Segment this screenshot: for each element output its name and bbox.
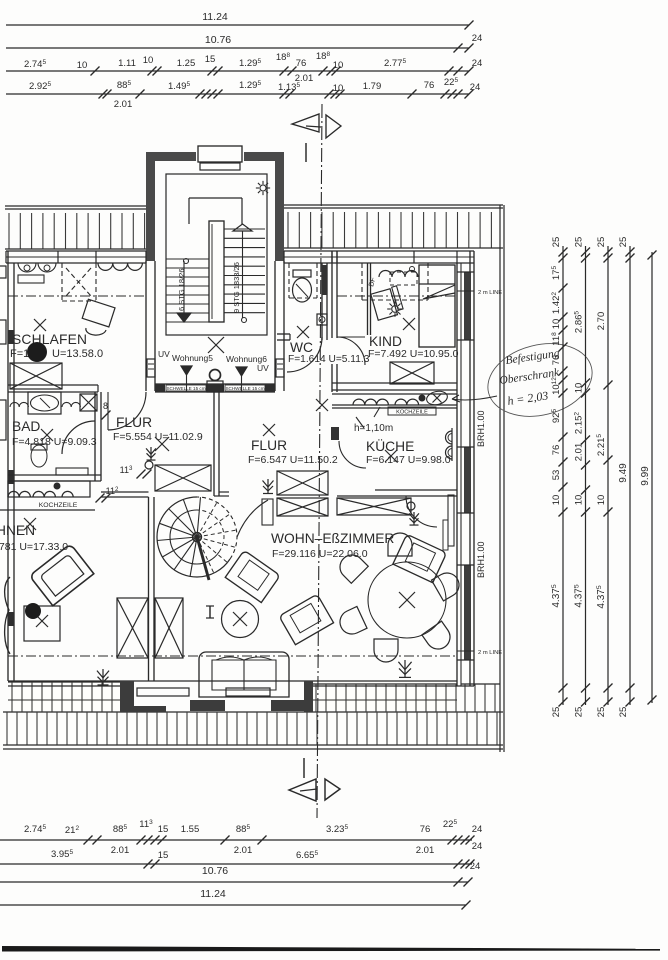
- note arrow to circled X: [452, 396, 497, 400]
- svg-text:U=13.58.0: U=13.58.0: [52, 348, 103, 360]
- toilet BAD: [31, 445, 47, 467]
- stair treads left flight: [166, 258, 209, 260]
- svg-text:25: 25: [551, 707, 562, 718]
- svg-text:76: 76: [296, 58, 307, 69]
- svg-text:25: 25: [574, 707, 585, 718]
- spiral stair bold tread line: [197, 537, 209, 580]
- wardrobe FLUR1 (crossed): [155, 465, 211, 491]
- door KUECHE-WOHN arc: [406, 496, 437, 527]
- svg-text:KOCHZEILE: KOCHZEILE: [396, 410, 428, 416]
- stairwell top entrance recess: [196, 150, 244, 164]
- svg-text:UV: UV: [158, 349, 170, 359]
- svg-text:10: 10: [333, 60, 344, 71]
- UV box left stair wall: [147, 359, 155, 377]
- door SCHLAFEN to FLUR arc: [108, 392, 146, 430]
- svg-text:1.55: 1.55: [181, 824, 200, 835]
- wall WC / KIND vertical: [331, 251, 333, 392]
- svg-text:9.49: 9.49: [618, 463, 629, 483]
- wall KUECHE bottom: [375, 489, 457, 491]
- closet scallops KIND top: [379, 271, 418, 278]
- svg-text:KOCHZEILE: KOCHZEILE: [39, 502, 78, 509]
- terrace plant left: [102, 669, 104, 685]
- threshold label SCHWELLE 15 cm left: [166, 385, 206, 391]
- svg-text:BRH1.00: BRH1.00: [476, 410, 486, 447]
- svg-text:1.11: 1.11: [118, 58, 136, 69]
- stair arrow up right flight: [233, 224, 252, 231]
- svg-text:BAD: BAD: [12, 419, 40, 434]
- label KOCHZEILE left: [0, 509, 95, 511]
- shelf BAD: [56, 468, 88, 475]
- handwritten note ellipse: [480, 333, 600, 427]
- right dim ticks: [559, 248, 568, 257]
- apartment top wall right section: [284, 250, 474, 252]
- kitchen counter fixing dot: [419, 395, 426, 402]
- svg-text:53: 53: [551, 470, 562, 481]
- balcony hatch band top-left: [5, 205, 146, 207]
- svg-text:24: 24: [470, 861, 481, 872]
- svg-text:F=29.116 U=22.06.0: F=29.116 U=22.06.0: [272, 548, 368, 560]
- svg-text:2.01: 2.01: [111, 845, 130, 856]
- svg-text:F=6.547 U=11.50.2: F=6.547 U=11.50.2: [248, 454, 338, 466]
- svg-text:10: 10: [574, 495, 585, 506]
- svg-text:10.76: 10.76: [202, 865, 228, 877]
- dimension chain line 4 (top): [6, 93, 469, 95]
- svg-text:10: 10: [333, 83, 344, 94]
- round side table with cross: [222, 601, 259, 638]
- svg-text:2.01: 2.01: [574, 443, 585, 462]
- apartment right outer wall: [456, 263, 458, 686]
- svg-text:BRH1.00: BRH1.00: [476, 541, 486, 578]
- radiator scallops flanking tub: [10, 402, 28, 407]
- section line vertical (dash-dot): [317, 104, 322, 818]
- vertical dimension line E: [651, 252, 653, 703]
- dining chairs: [388, 533, 412, 556]
- vertical dimension line B: [585, 246, 587, 705]
- spiral stair spokes: [190, 537, 197, 576]
- lamp symbol stairwell: [260, 185, 266, 191]
- svg-text:24: 24: [472, 824, 483, 835]
- svg-text:8: 8: [103, 401, 108, 411]
- svg-text:25: 25: [618, 707, 629, 718]
- sideboard FLUR2 crossed lower: [277, 498, 328, 516]
- svg-text:2.01: 2.01: [416, 845, 435, 856]
- balcony hatch band bottom: [3, 711, 503, 713]
- 2m line right KIND: [337, 295, 457, 297]
- svg-text:24: 24: [472, 841, 483, 852]
- bathtub BAD: [28, 392, 61, 414]
- svg-text:h=1,10m: h=1,10m: [354, 423, 393, 434]
- stair treads right flight: [224, 228, 265, 230]
- svg-text:10: 10: [574, 383, 585, 394]
- cross mark WC: [297, 326, 309, 338]
- svg-text:11.24: 11.24: [202, 11, 228, 23]
- door pier KUECHE dark: [331, 427, 339, 440]
- svg-text:F=5.554 U=11.02.9: F=5.554 U=11.02.9: [113, 431, 203, 443]
- svg-text:1.79: 1.79: [363, 81, 382, 92]
- terrace door sill bars (dark): [190, 700, 225, 711]
- door KIND arc: [337, 337, 365, 365]
- svg-text:F=6.147 U=9.98.0: F=6.147 U=9.98.0: [366, 454, 451, 466]
- wall FLUR1 / FLUR2 vertical: [213, 392, 215, 496]
- dormer cheek wall KIND: [367, 263, 369, 335]
- sink WC: [317, 314, 327, 325]
- scan edge bar bottom: [2, 946, 660, 952]
- svg-text:10: 10: [596, 495, 607, 506]
- dormer dashed outline SCHLAFEN: [61, 263, 63, 301]
- svg-text:9 STG 1833/26: 9 STG 1833/26: [232, 262, 241, 313]
- svg-text:15: 15: [205, 54, 216, 65]
- newel circle at stair hall: [210, 370, 221, 381]
- svg-text:WC: WC: [290, 340, 313, 355]
- balcony hatch band top-right: [284, 204, 503, 206]
- terrace door jamb left (dark L): [120, 681, 134, 712]
- svg-text:11.24: 11.24: [200, 888, 226, 900]
- door WC arc: [287, 337, 322, 372]
- spiral stair outer circle: [157, 497, 230, 577]
- bottom dimension chain line A: [0, 839, 472, 841]
- terrace grid right segment: [312, 683, 457, 685]
- wall WC right: [321, 263, 323, 340]
- svg-text:76: 76: [551, 445, 562, 456]
- wall BAD / FLUR vertical: [94, 392, 96, 481]
- stairwell bottom wall with thresholds: [155, 383, 275, 385]
- svg-text:FLUR: FLUR: [116, 415, 152, 430]
- toilet WC: [293, 270, 311, 277]
- stair well eye rect: [189, 197, 242, 199]
- dormer dashed KIND: [361, 263, 363, 300]
- armchair WOHN 2: [279, 594, 334, 645]
- svg-text:25: 25: [596, 237, 607, 248]
- wall shelf right: [448, 495, 454, 546]
- washbasins top wall SCHLAFEN: [18, 263, 36, 272]
- svg-text:.781 U=17.33.0: .781 U=17.33.0: [0, 541, 68, 553]
- dimension chain line 3 (top): [6, 70, 469, 72]
- apartment bottom wall: [8, 680, 457, 682]
- dimension line 10.76 (top): [6, 47, 469, 49]
- sideboard WOHN crossed: [337, 498, 411, 515]
- svg-text:2.01: 2.01: [234, 845, 253, 856]
- svg-text:KÜCHE: KÜCHE: [366, 437, 414, 454]
- terrace grid left segment: [8, 681, 120, 683]
- svg-text:76: 76: [420, 824, 431, 835]
- dining table oval: [368, 562, 446, 638]
- armchair WOHN 3: [393, 534, 447, 583]
- section marker top (mirrored triangles): [292, 114, 319, 132]
- wall SCHLAFEN / BAD: [8, 384, 98, 386]
- svg-text:2.01: 2.01: [114, 99, 133, 110]
- section marker bottom (mirrored triangles): [289, 779, 316, 801]
- right wall connectors: [457, 262, 474, 264]
- svg-text:F=4.818 U=9.09.3: F=4.818 U=9.09.3: [12, 436, 97, 448]
- bottom dimension line 11.24: [0, 904, 466, 906]
- wall WC bottom stub: [277, 333, 290, 335]
- cross mark KUECHE: [316, 399, 328, 411]
- shelves crossed at partition: [117, 598, 148, 658]
- stairwell inner boundary: [166, 174, 267, 335]
- stair central stringer: [209, 221, 224, 322]
- armchair WOHNEN: [29, 544, 93, 606]
- right wall window glazing dark segments: [464, 272, 471, 340]
- terrace grid beyond right wall: [461, 683, 500, 685]
- door KUECHE arc: [339, 441, 366, 468]
- dimension line 11.24 (top): [6, 24, 469, 26]
- svg-text:F=7.492 U=10.95.0: F=7.492 U=10.95.0: [368, 348, 459, 360]
- wall KIND / KUECHE horizontal: [332, 382, 457, 384]
- wardrobe KIND (crossed): [390, 362, 434, 384]
- stairwell outer walls (dark): [146, 152, 284, 161]
- stair arrow down left flight: [183, 261, 185, 313]
- svg-text:2 m LINE: 2 m LINE: [478, 650, 502, 656]
- plant symbol FLUR2: [267, 479, 269, 494]
- bottom dimension line 10.76: [0, 881, 468, 883]
- kitchen circled X (Oberschrank fixing): [425, 389, 448, 406]
- curly brace cut mark: [5, 577, 10, 654]
- svg-text:10: 10: [551, 495, 562, 506]
- kitchen upper cabinets scallops: [353, 399, 388, 405]
- svg-text:25: 25: [596, 707, 607, 718]
- bed KIND: [419, 265, 455, 347]
- cross mark SCHLAFEN: [34, 319, 46, 331]
- cross mark FLUR1: [155, 437, 169, 451]
- armchair WOHN 1: [225, 550, 280, 602]
- svg-text:76: 76: [551, 355, 562, 366]
- stairwell side walls lower (double line): [145, 261, 147, 391]
- cross mark BAD: [41, 429, 53, 441]
- svg-text:9.99: 9.99: [640, 466, 651, 486]
- sofa WOHN: [199, 652, 289, 697]
- shaft crossed BAD: [80, 394, 97, 411]
- terrace door jamb right (dark): [304, 681, 313, 712]
- 2m line bottom: [8, 655, 457, 657]
- svg-text:10: 10: [77, 60, 88, 71]
- svg-text:Wohnung5: Wohnung5: [172, 353, 213, 363]
- apartment left outer wall: [7, 251, 9, 681]
- kitchenette WOHNEN counter: [8, 481, 90, 497]
- svg-text:76: 76: [424, 80, 435, 91]
- svg-text:SCHWELLE 15 cm: SCHWELLE 15 cm: [225, 386, 264, 391]
- radiator SCHLAFEN: [18, 275, 44, 283]
- floor lamp symbol: [209, 606, 211, 618]
- label KOCHZEILE right: [388, 407, 436, 415]
- side table WOHNEN with cross: [24, 606, 60, 641]
- stove sink KUECHE right wall: [446, 431, 452, 444]
- kitchen KOCHZEILE counter wall: [332, 389, 457, 391]
- wall WOHNEN / living vertical: [148, 497, 150, 681]
- cross mark KIND: [403, 318, 415, 330]
- svg-text:24: 24: [472, 33, 483, 44]
- plant symbol FLUR1: [150, 447, 152, 460]
- svg-text:2.70: 2.70: [596, 312, 607, 331]
- apartment top wall left section: [6, 250, 146, 252]
- wall BAD bottom: [8, 474, 101, 476]
- spiral stair hub: [193, 533, 202, 542]
- desk and chair SCHLAFEN: [82, 299, 115, 327]
- dormer dashed WC: [288, 263, 290, 298]
- svg-text:2 m LINE: 2 m LINE: [478, 290, 502, 296]
- lamp KIND: [392, 306, 399, 313]
- roof edge right: [499, 205, 501, 752]
- svg-text:15: 15: [158, 824, 169, 835]
- left edge cut fixtures: [0, 266, 6, 278]
- cross mark stair hall: [208, 337, 224, 353]
- vertical dimension line A: [562, 246, 564, 705]
- bottom dimension line B: [0, 863, 472, 865]
- door BAD arc: [62, 421, 95, 454]
- threshold label SCHWELLE 15 cm right: [225, 385, 265, 391]
- UV box right stair wall: [276, 359, 284, 377]
- 2m line left (dash-dot): [8, 295, 146, 297]
- svg-text:24: 24: [470, 82, 481, 93]
- svg-text:FLUR: FLUR: [251, 438, 287, 453]
- sideboard FLUR2 crossed upper: [277, 471, 328, 495]
- ink blob dot WOHNEN: [25, 603, 41, 619]
- cross mark WOHNEN: [24, 518, 36, 530]
- svg-text:6 STG 18/26: 6 STG 18/26: [177, 268, 186, 311]
- svg-text:1.25: 1.25: [177, 58, 196, 69]
- dashed box KIND top: [390, 272, 417, 285]
- svg-text:15: 15: [158, 850, 169, 861]
- svg-text:F=1.614 U=5.11.3: F=1.614 U=5.11.3: [288, 354, 370, 365]
- svg-text:25: 25: [574, 237, 585, 248]
- desk chair KIND: [371, 286, 405, 320]
- terrace sliding panels: [137, 688, 189, 696]
- vertical dimension line D: [629, 246, 631, 705]
- svg-text:SCHLAFEN: SCHLAFEN: [12, 332, 87, 347]
- wardrobe SCHLAFEN (crossed): [10, 363, 62, 389]
- svg-text:10: 10: [551, 319, 562, 330]
- spiral stair inner circle: [170, 510, 219, 564]
- svg-text:WOHN–EßZIMMER: WOHN–EßZIMMER: [271, 531, 394, 546]
- svg-text:10: 10: [143, 55, 154, 66]
- cross mark FLUR2: [263, 424, 275, 436]
- spiral stair entry curve: [237, 500, 268, 537]
- svg-text:10.76: 10.76: [205, 34, 231, 46]
- svg-text:25: 25: [551, 237, 562, 248]
- svg-text:UV: UV: [257, 363, 269, 373]
- terrace plant right: [404, 660, 406, 677]
- vertical dimension line C: [607, 246, 609, 705]
- door gap wall KIND: [331, 338, 338, 364]
- svg-text:KIND: KIND: [369, 334, 402, 349]
- svg-text:25: 25: [618, 237, 629, 248]
- svg-text:HNEN: HNEN: [0, 523, 35, 538]
